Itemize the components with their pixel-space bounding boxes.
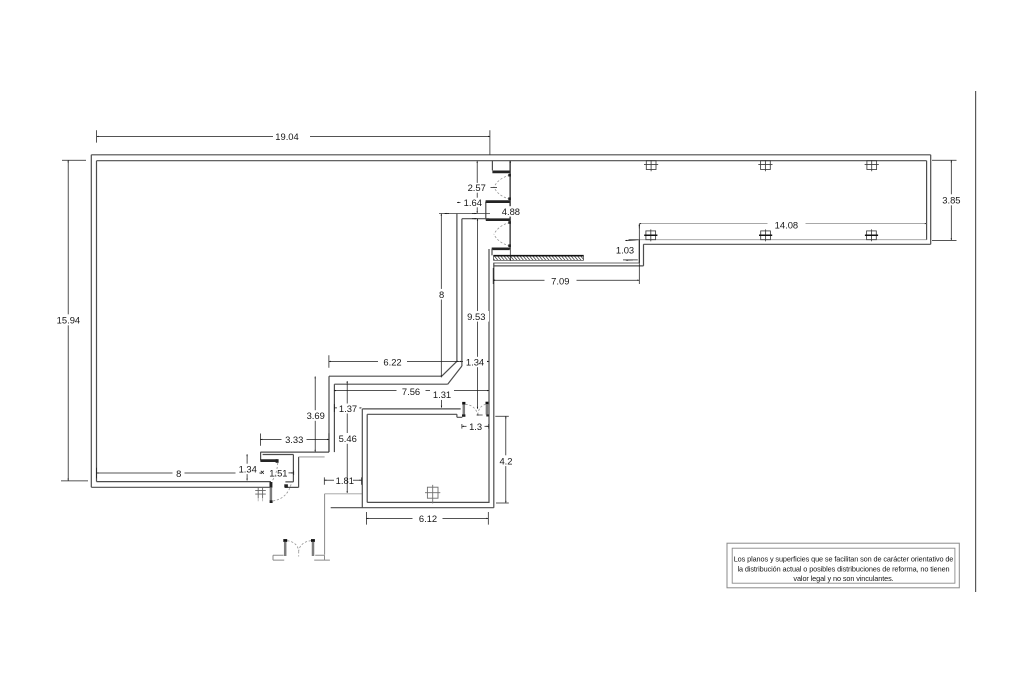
- svg-text:1.31: 1.31: [433, 389, 451, 400]
- svg-text:8: 8: [176, 468, 181, 479]
- svg-text:3.33: 3.33: [285, 434, 303, 445]
- svg-text:valor legal y no son vinculant: valor legal y no son vinculantes.: [793, 574, 893, 583]
- svg-text:4.2: 4.2: [499, 455, 512, 466]
- svg-text:1.37: 1.37: [339, 403, 357, 414]
- svg-text:la distribución actual o posib: la distribución actual o posibles distri…: [737, 564, 949, 573]
- svg-text:5.46: 5.46: [339, 433, 357, 444]
- svg-text:9.53: 9.53: [467, 311, 485, 322]
- svg-text:1.34: 1.34: [239, 463, 257, 474]
- svg-text:2.57: 2.57: [468, 182, 486, 193]
- svg-text:19.04: 19.04: [275, 131, 298, 142]
- svg-text:3.69: 3.69: [307, 410, 325, 421]
- svg-text:8: 8: [439, 289, 444, 300]
- svg-text:1.03: 1.03: [616, 245, 634, 256]
- svg-text:1.64: 1.64: [464, 197, 482, 208]
- svg-text:1.34: 1.34: [466, 356, 484, 367]
- svg-text:7.56: 7.56: [402, 386, 420, 397]
- svg-text:7.09: 7.09: [551, 275, 569, 286]
- svg-text:Los planos y superficies que s: Los planos y superficies que se facilita…: [734, 555, 954, 564]
- svg-text:1.3: 1.3: [469, 421, 482, 432]
- svg-text:6.22: 6.22: [383, 357, 401, 368]
- svg-text:4.88: 4.88: [502, 206, 520, 217]
- svg-text:1.81: 1.81: [336, 475, 354, 486]
- svg-text:1.51: 1.51: [269, 468, 287, 479]
- svg-text:14.08: 14.08: [775, 219, 798, 230]
- svg-text:3.85: 3.85: [942, 194, 960, 205]
- svg-text:6.12: 6.12: [419, 513, 437, 524]
- svg-text:15.94: 15.94: [57, 314, 80, 325]
